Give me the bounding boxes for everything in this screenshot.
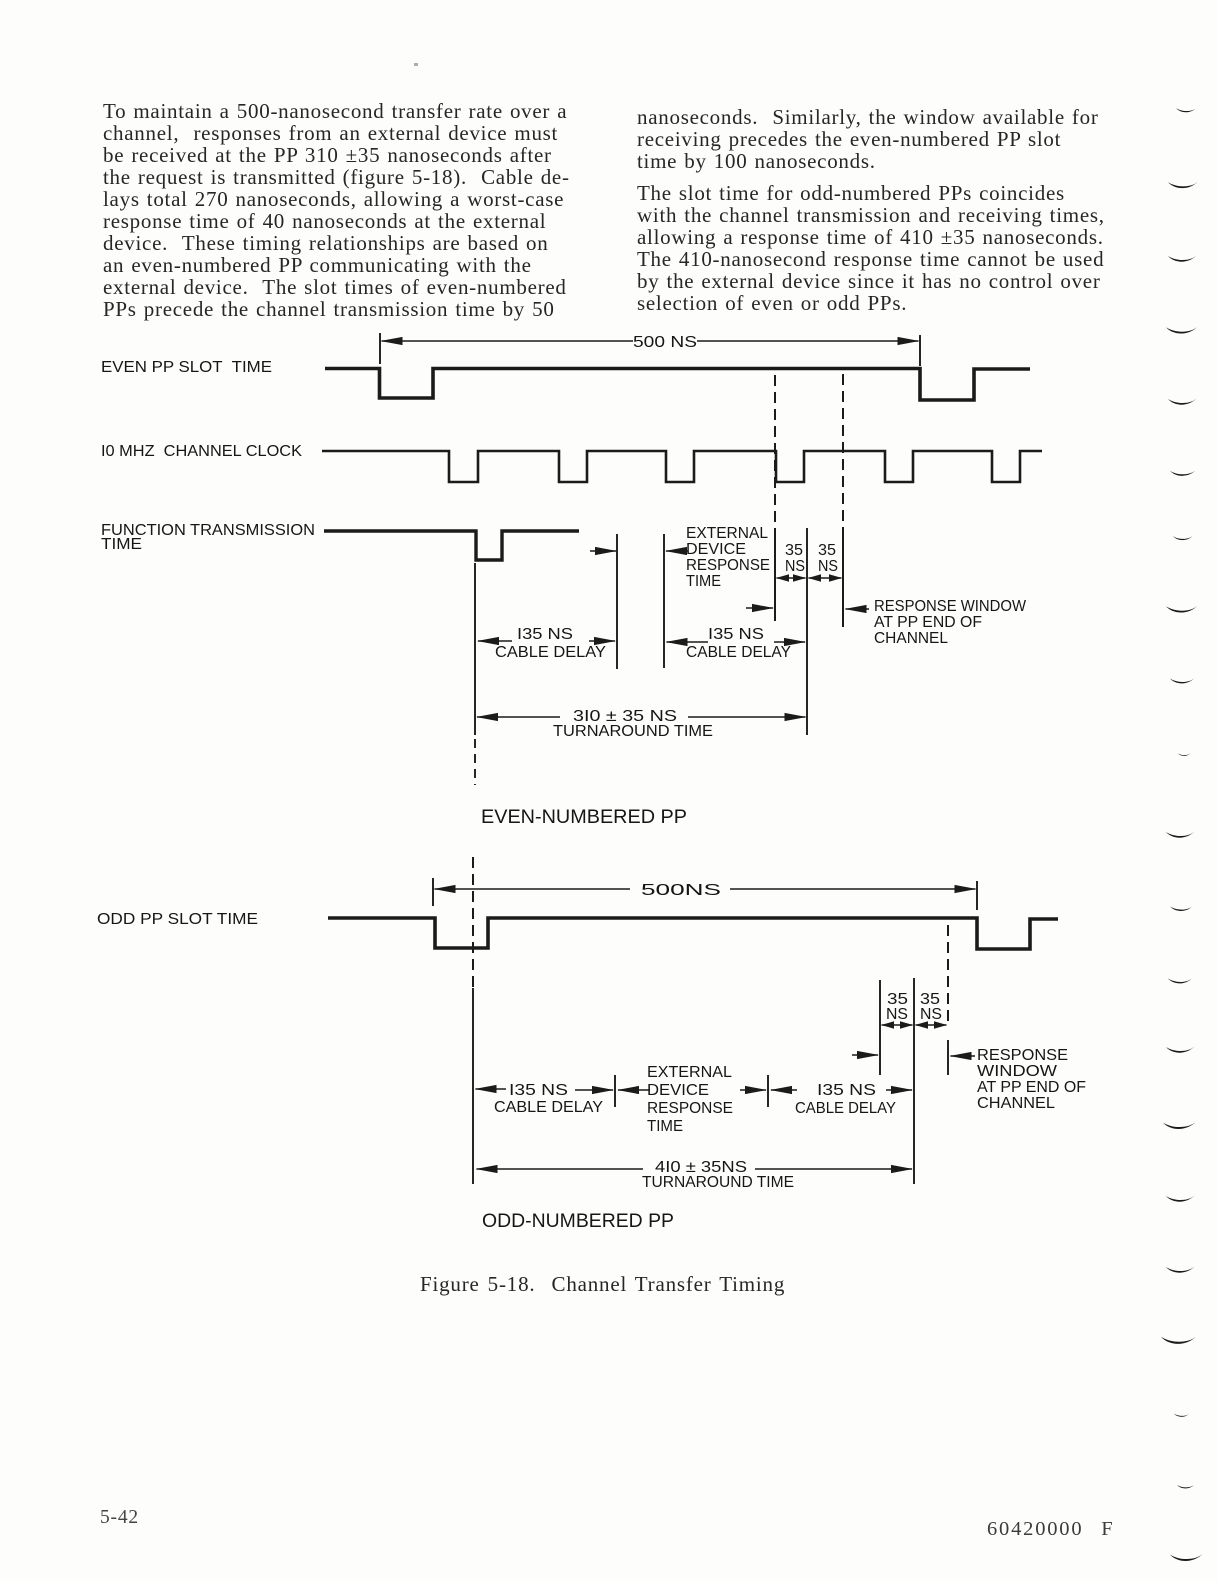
odd line left 35ns [879,980,881,1075]
figure caption [420,1272,785,1297]
footer document number [987,1518,1114,1541]
svg-text:AT PP END OF: AT PP END OF [977,1079,1086,1096]
odd arrow into 948 response window [951,1055,976,1057]
odd tick end of first cable delay [614,1075,616,1107]
odd arrow right of tick 615 [618,1089,650,1091]
paragraph column 1 [103,100,570,320]
500 NS dimension arrows [382,340,634,342]
odd arrow into 914 [886,1089,912,1091]
vertical line start of ext device response [663,534,665,668]
svg-text:RESPONSE WINDOW: RESPONSE WINDOW [874,598,1026,615]
vertical line end of first cable delay [616,534,618,669]
svg-text:35: 35 [818,542,836,559]
svg-text:35: 35 [785,542,803,559]
svg-text:RESPONSE: RESPONSE [647,1100,733,1117]
35ns double arrows [777,577,806,579]
svg-text:I0 MHZ CHANNEL CLOCK: I0 MHZ CHANNEL CLOCK [101,443,303,460]
odd arrow into 880 [852,1054,878,1056]
svg-text:NS: NS [886,1006,908,1023]
135ns no1 arrows [478,640,512,642]
arrow into 664 [666,550,688,552]
svg-text:I35 NS: I35 NS [509,1082,568,1099]
arrow into 617 [590,550,616,552]
svg-text:TURNAROUND TIME: TURNAROUND TIME [553,723,713,740]
odd arrow right of tick 768 [771,1089,797,1091]
odd dashed line at fall [472,857,474,988]
svg-text:EXTERNAL: EXTERNAL [647,1064,732,1081]
svg-text:ODD PP SLOT TIME: ODD PP SLOT TIME [97,911,258,928]
dashed line at 35ns window left [774,375,776,527]
svg-text:CABLE DELAY: CABLE DELAY [495,644,606,661]
odd line middle 35ns / turnaround right [913,978,915,1184]
paragraph column 2a [637,106,1099,172]
even pp slot time waveform [325,369,1030,401]
odd arrow into tick 768 [740,1089,766,1091]
svg-text:I35 NS: I35 NS [517,626,573,643]
svg-text:WINDOW: WINDOW [977,1063,1057,1080]
svg-text:500NS: 500NS [641,882,721,899]
svg-text:DEVICE: DEVICE [647,1082,709,1099]
svg-text:CABLE DELAY: CABLE DELAY [795,1100,896,1117]
svg-text:EVEN-NUMBERED PP: EVEN-NUMBERED PP [481,806,687,828]
svg-text:TURNAROUND TIME: TURNAROUND TIME [642,1174,794,1191]
svg-text:CABLE DELAY: CABLE DELAY [686,644,791,661]
svg-text:I35 NS: I35 NS [708,626,764,643]
svg-text:TIME: TIME [686,573,721,590]
odd pp slot time waveform [328,918,1058,949]
odd dashed line right 35ns [947,925,949,1026]
odd 500ns arrows [435,888,631,890]
svg-text:EXTERNAL: EXTERNAL [686,525,768,542]
footer page number [100,1507,139,1529]
odd 35ns double arrows [882,1024,913,1026]
arrow into 843 response window [846,608,870,610]
odd tick end of ext device response [767,1075,769,1107]
svg-text:AT PP END OF: AT PP END OF [874,614,982,631]
odd 135ns no1 arrows [476,1088,507,1090]
vertical line at function fall [474,563,476,735]
svg-text:CABLE DELAY: CABLE DELAY [494,1099,603,1116]
vertical line middle 35ns / turnaround right [806,528,808,735]
odd 500ns ticks [433,878,977,910]
svg-text:EVEN PP SLOT TIME: EVEN PP SLOT TIME [101,359,272,376]
arrow into 775 [746,607,773,609]
svg-text:TIME: TIME [101,536,142,553]
310 turnaround arrows [477,716,560,718]
svg-text:RESPONSE: RESPONSE [686,557,770,574]
svg-text:RESPONSE: RESPONSE [977,1047,1068,1064]
10 mhz channel clock waveform [322,451,1042,482]
odd 410 turnaround arrows [477,1168,644,1170]
dashed line at 35ns window right [842,374,844,528]
svg-text:500 NS: 500 NS [633,334,697,351]
500 NS dimension ticks [380,333,920,366]
svg-text:NS: NS [785,558,805,575]
paragraph column 2b [637,182,1105,314]
svg-text:ODD-NUMBERED PP: ODD-NUMBERED PP [482,1210,674,1232]
svg-text:TIME: TIME [647,1118,683,1135]
135ns no2 arrows [667,641,709,643]
svg-text:NS: NS [920,1006,942,1023]
svg-text:NS: NS [818,558,838,575]
svg-text:CHANNEL: CHANNEL [977,1095,1055,1112]
function transmission time waveform [324,531,579,560]
svg-text:CHANNEL: CHANNEL [874,630,948,647]
svg-text:DEVICE: DEVICE [686,541,746,558]
svg-text:I35 NS: I35 NS [817,1082,876,1099]
right edge binding crescents [1161,107,1203,1561]
